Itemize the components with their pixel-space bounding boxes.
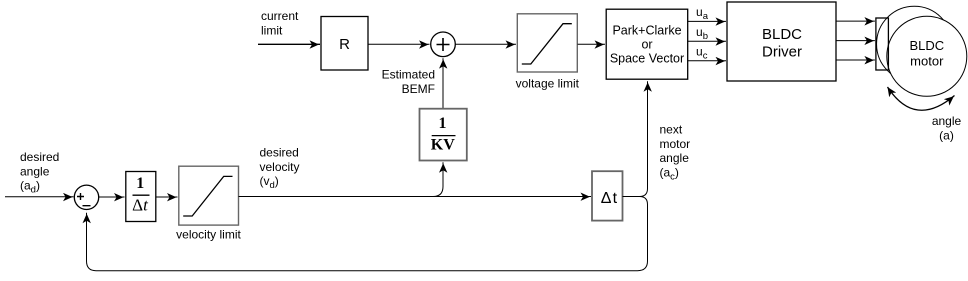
svg-text:voltage limit: voltage limit [516,77,580,91]
svg-text:angle: angle [660,151,690,165]
svg-text:current: current [261,9,299,23]
svg-text:desired: desired [20,150,59,164]
wire: delta-t output stub [623,196,640,198]
block voltage limit [517,14,577,72]
BLDC motor: front circle [887,16,967,96]
block 1/dt [126,172,156,222]
svg-text:Driver: Driver [762,43,802,60]
svg-text:motor: motor [910,53,944,68]
rotation arc with double arrows [888,87,955,110]
svg-text:angle: angle [20,164,50,178]
wire: branch up to 1/KV [433,162,443,196]
svg-text:R: R [339,36,350,53]
svg-text:desired: desired [260,146,299,160]
svg-text:BLDC: BLDC [762,26,802,43]
wire: current limit input arrow [258,43,320,45]
svg-text:BEMF: BEMF [402,82,435,96]
svg-text:(a): (a) [939,128,954,142]
block R [321,17,368,71]
svg-text:or: or [641,38,652,52]
BLDC motor: shaft rect [876,18,889,70]
svg-text:angle: angle [932,114,962,128]
wire: phase u_a to BLDC driver [688,20,726,22]
svg-text:BLDC: BLDC [909,38,944,53]
summing junction U1 (+) [431,32,456,57]
svg-text:Estimated: Estimated [382,68,435,82]
block Park+Clarke or Space Vector [606,9,688,79]
svg-text:Δt: Δt [132,196,149,215]
wire: voltage limit to Park/Clarke [578,43,606,45]
wire: driver to motor phase 2 [836,40,875,42]
svg-text:motor: motor [660,137,691,151]
saturation curve (velocity limit) [183,176,232,216]
wire: summing junction to 1/dt [99,196,125,198]
block velocity limit [179,166,239,225]
svg-text:next: next [660,123,683,137]
svg-text:limit: limit [261,23,283,37]
BLDC motor: back circle [877,6,953,82]
wire: R to summing junction [368,43,430,45]
wire: feedback loop down, left, up to summing junction [87,197,648,271]
svg-text:velocity limit: velocity limit [176,228,241,242]
svg-text:1: 1 [439,115,447,132]
summing junction U2 (+/-) [74,185,98,209]
svg-text:1: 1 [136,175,144,192]
svg-text:Δt: Δt [601,190,619,207]
wire: velocity limit to delta-t block (long line) [239,196,592,198]
block BLDC Driver [727,2,836,81]
wire: up to Park/Clarke (next motor angle) [640,81,648,196]
wire: 1/KV up to summing junction [442,58,444,108]
svg-text:velocity: velocity [260,160,300,174]
svg-text:Park+Clarke: Park+Clarke [612,24,681,38]
block 1/KV [420,109,467,161]
wire: phase u_b to BLDC driver [688,40,726,42]
wire: phase u_c to BLDC driver [688,60,726,62]
wire: driver to motor phase 1 [836,20,875,22]
wire: summing junction to voltage limit [456,43,517,45]
saturation curve (voltage limit) [522,24,572,64]
svg-text:KV: KV [431,136,455,153]
wire: driver to motor phase 3 [836,59,875,61]
wire: desired angle input [5,196,74,198]
block delta-t [592,171,623,220]
svg-text:Space Vector: Space Vector [610,52,684,66]
wire: 1/dt to velocity limit [156,196,178,198]
